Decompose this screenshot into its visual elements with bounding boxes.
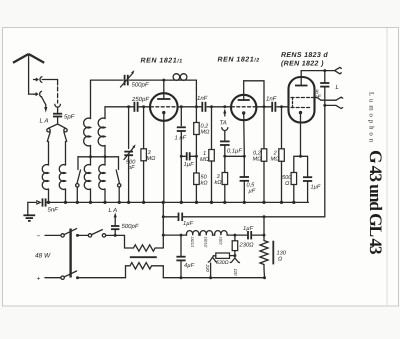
svg-text:1821/2: 1821/2 bbox=[204, 237, 208, 249]
svg-text:MΩ: MΩ bbox=[200, 157, 210, 163]
node grid b bbox=[142, 105, 145, 108]
coil L2 bbox=[59, 165, 65, 190]
coil L3 tank bbox=[90, 80, 92, 118]
wire top feedback line bbox=[91, 79, 172, 81]
node anode T3 bbox=[323, 69, 326, 72]
socket upper bbox=[34, 78, 38, 80]
node grid f bbox=[223, 105, 226, 108]
svg-text:kΩ: kΩ bbox=[215, 179, 223, 186]
plug fork right bbox=[230, 256, 239, 263]
variable capacitor 500pF top bbox=[121, 70, 149, 88]
node bus2 end bbox=[263, 276, 266, 279]
node bus i bbox=[162, 201, 165, 204]
node link b bbox=[195, 155, 198, 158]
resistor 50k bbox=[194, 173, 209, 202]
node heater 230 bbox=[233, 234, 236, 237]
switch mains c bbox=[64, 271, 76, 277]
capacitor 250pF bbox=[131, 96, 149, 112]
plug TA pickup bbox=[220, 109, 228, 141]
node bus k bbox=[195, 201, 198, 204]
node heater left bbox=[162, 234, 165, 237]
svg-text:230Ω: 230Ω bbox=[239, 242, 255, 249]
node line2 right bbox=[263, 215, 266, 218]
svg-text:1µF: 1µF bbox=[311, 185, 321, 191]
wire to 5pF bbox=[57, 107, 59, 113]
node heater right bbox=[263, 234, 266, 237]
svg-text:1µF: 1µF bbox=[243, 226, 254, 232]
capacitor 1nF coupling1 bbox=[197, 95, 208, 112]
node anode T1 top bbox=[162, 79, 165, 82]
switch S1b bbox=[64, 129, 67, 132]
node bus e bbox=[103, 201, 106, 204]
capacitor 1uF cathode bbox=[301, 156, 321, 202]
node link a bbox=[180, 155, 183, 158]
node bus o bbox=[262, 201, 265, 204]
node grid d bbox=[195, 105, 198, 108]
antenna bbox=[13, 54, 44, 94]
svg-text:MΩ: MΩ bbox=[253, 157, 263, 163]
svg-text:1 nF: 1 nF bbox=[175, 136, 187, 142]
svg-text:L: L bbox=[336, 84, 339, 91]
node bus p bbox=[280, 201, 283, 204]
node screen bbox=[323, 104, 326, 107]
svg-text:µF: µF bbox=[249, 189, 256, 195]
svg-text:1821/1: 1821/1 bbox=[190, 237, 194, 248]
capacitor 1nF vertical bbox=[175, 127, 187, 141]
node tap L3 bbox=[89, 155, 92, 158]
svg-text:250pF: 250pF bbox=[131, 96, 149, 103]
wire tap link bbox=[78, 156, 119, 158]
heater coil 1821/1 bbox=[186, 231, 199, 235]
resistor 0.2M second bbox=[253, 107, 267, 203]
core bar 130 bbox=[272, 241, 274, 265]
wire mains top bbox=[78, 234, 89, 236]
switch mains a bbox=[64, 229, 76, 235]
node bus b bbox=[64, 201, 67, 204]
wire anode T3 bbox=[301, 70, 325, 72]
resistor 500 cathode bbox=[282, 155, 302, 203]
node mains a bbox=[76, 234, 79, 237]
svg-text:0,1µF: 0,1µF bbox=[227, 148, 242, 155]
node bus l bbox=[210, 201, 213, 204]
capacitor 0.1uF bbox=[220, 141, 242, 154]
svg-text:+: + bbox=[37, 276, 41, 283]
node tap L5 bbox=[104, 155, 107, 158]
heater coil 1823 bbox=[215, 231, 228, 235]
node grid a bbox=[127, 105, 130, 108]
node bus a bbox=[47, 201, 50, 204]
svg-text:630Ω: 630Ω bbox=[216, 260, 229, 266]
coil RF choke bbox=[171, 74, 190, 81]
svg-text:MΩ: MΩ bbox=[201, 130, 211, 136]
node bus2 4uF bbox=[180, 276, 183, 279]
jack speaker top bbox=[325, 67, 342, 73]
svg-text:REN 1821/2: REN 1821/2 bbox=[218, 57, 260, 64]
resistor 3M bbox=[141, 107, 156, 203]
variable capacitor 500pF LA bbox=[109, 207, 139, 235]
svg-text:1µF: 1µF bbox=[184, 162, 195, 168]
scan fold line bbox=[386, 28, 388, 306]
switch linkage bar bbox=[69, 229, 71, 278]
svg-text:TA: TA bbox=[220, 120, 227, 127]
node bus j bbox=[180, 201, 183, 204]
node line2 left bbox=[162, 215, 165, 218]
svg-text:1823: 1823 bbox=[218, 237, 222, 246]
svg-text:L A: L A bbox=[109, 207, 118, 214]
ground bbox=[23, 202, 36, 221]
capacitor 1nF coupling2 bbox=[266, 96, 277, 112]
capacitor 4uF bbox=[176, 235, 194, 278]
switch S2b bbox=[116, 157, 119, 184]
capacitor 5pF bbox=[53, 114, 75, 121]
svg-text:(REN 1822 ): (REN 1822 ) bbox=[281, 60, 324, 68]
svg-text:48 W: 48 W bbox=[35, 253, 51, 260]
svg-text:RENS 1823 d: RENS 1823 d bbox=[281, 51, 328, 59]
plug fork left bbox=[208, 256, 217, 262]
switch S1a bbox=[47, 129, 50, 132]
node cathode link b bbox=[243, 155, 246, 158]
node grid e bbox=[210, 105, 213, 108]
plug arrow to LA tap bbox=[41, 97, 46, 108]
node bus n bbox=[243, 201, 246, 204]
capacitor 0.5uF bbox=[240, 156, 256, 202]
svg-text:5nF: 5nF bbox=[48, 207, 59, 214]
tube T3 RENS1823d bbox=[289, 71, 315, 157]
wire cathode link bbox=[225, 155, 245, 157]
coil L6 bbox=[99, 165, 105, 190]
node LA cap bbox=[114, 234, 117, 237]
antenna pin lower bbox=[33, 93, 37, 95]
svg-text:−: − bbox=[37, 233, 41, 240]
capacitor 1uF heater bbox=[243, 226, 264, 239]
jack speaker bottom bbox=[325, 97, 343, 108]
wire grid line left bbox=[105, 106, 150, 108]
capacitor 5nF bbox=[43, 198, 59, 213]
resistor 630 bbox=[213, 253, 235, 266]
svg-text:1nF: 1nF bbox=[197, 95, 208, 102]
pin ground side bbox=[37, 201, 41, 204]
node bus2 plug bbox=[209, 276, 212, 279]
node grid c bbox=[180, 105, 183, 108]
wire heater chain bbox=[163, 234, 186, 236]
wire bus bottom right bbox=[163, 277, 264, 279]
svg-text:REN 1821/1: REN 1821/1 bbox=[141, 58, 183, 65]
core bar bbox=[130, 256, 157, 258]
capacitor 5nF anode bbox=[315, 71, 330, 101]
wire screen T3 out bbox=[312, 98, 337, 101]
svg-text:Ω: Ω bbox=[278, 257, 283, 263]
tube T2 REN1821/2 bbox=[231, 81, 256, 157]
svg-text:MΩ: MΩ bbox=[147, 156, 157, 162]
svg-text:5pF: 5pF bbox=[64, 114, 75, 121]
wire bus bottom left bbox=[78, 277, 126, 279]
node bus g bbox=[127, 201, 130, 204]
resistor 130 zigzag bbox=[260, 235, 268, 278]
wire grid-leak drop bbox=[180, 107, 182, 126]
wire grid line T3 bbox=[256, 106, 289, 108]
resistor 2M bbox=[271, 107, 285, 203]
resistor dropper R1 zigzag bbox=[125, 235, 164, 251]
node bus d bbox=[89, 201, 92, 204]
wire upper jack to dashed lead bbox=[42, 80, 57, 86]
resistor dropper R2 zigzag bbox=[126, 263, 164, 278]
node anode T2 bbox=[263, 105, 266, 108]
socket lower bbox=[40, 91, 42, 97]
wire antenna to pin bbox=[29, 93, 35, 95]
cup socket bbox=[55, 104, 61, 107]
heater coil 1821/2 bbox=[200, 231, 213, 235]
svg-text:L A: L A bbox=[40, 118, 49, 125]
switch S2a bbox=[77, 157, 81, 184]
node grid T3 bbox=[280, 105, 283, 108]
svg-text:1µF: 1µF bbox=[183, 221, 194, 227]
resistor 1M bbox=[200, 107, 214, 203]
wire grid drop g bbox=[128, 107, 130, 149]
svg-text:MΩ: MΩ bbox=[271, 157, 281, 163]
wire drop to heater bus bbox=[263, 217, 265, 235]
tube T1 REN1821/1 bbox=[150, 80, 178, 202]
node bus h bbox=[142, 201, 145, 204]
coil L5 tank bbox=[104, 107, 106, 119]
node bus m bbox=[223, 201, 226, 204]
variable capacitor 500pF lower bbox=[124, 144, 136, 171]
wire 5pF to band switches bbox=[49, 118, 66, 129]
wire grid line right of T1 bbox=[177, 106, 231, 108]
capacitor 1uF line2 bbox=[179, 213, 194, 227]
svg-text:Ω: Ω bbox=[285, 181, 290, 187]
capacitor 1uF link bbox=[181, 152, 196, 168]
node mains b bbox=[76, 276, 79, 279]
svg-text:Lumophon: Lumophon bbox=[368, 92, 375, 145]
node bus q bbox=[292, 201, 295, 204]
svg-text:G 43 und GL 43: G 43 und GL 43 bbox=[366, 150, 386, 255]
svg-text:110: 110 bbox=[233, 269, 238, 277]
dashed plug lead bbox=[57, 87, 59, 103]
switch mains b bbox=[88, 234, 91, 237]
svg-text:500pF: 500pF bbox=[132, 82, 149, 89]
svg-text:kΩ: kΩ bbox=[201, 180, 209, 187]
main bus bbox=[46, 201, 309, 203]
coil L1 bbox=[42, 165, 48, 190]
wire heater feed line2 bbox=[163, 202, 324, 247]
svg-text:1nF: 1nF bbox=[266, 96, 277, 103]
resistor 230 bbox=[232, 235, 254, 256]
svg-text:4µF: 4µF bbox=[184, 263, 195, 269]
node heater 4uF bbox=[180, 234, 183, 237]
coil L4 bbox=[84, 165, 90, 190]
resistor 0.2M first bbox=[194, 107, 210, 173]
wire anode T2 loop bbox=[244, 81, 264, 107]
svg-text:220: 220 bbox=[205, 264, 210, 273]
node bus c bbox=[76, 201, 79, 204]
svg-text:500pF: 500pF bbox=[122, 223, 139, 230]
node cathode link a bbox=[223, 155, 226, 158]
resistor 3k bbox=[215, 173, 228, 203]
node tap bbox=[233, 254, 236, 257]
node bus f bbox=[118, 201, 121, 204]
